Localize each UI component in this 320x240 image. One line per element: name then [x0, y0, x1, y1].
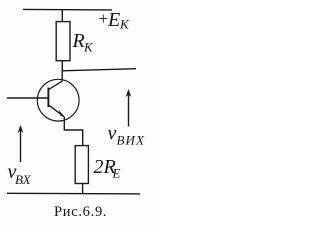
svg-text:ВИХ: ВИХ [117, 133, 146, 148]
svg-text:R: R [72, 30, 85, 52]
svg-text:E: E [112, 166, 121, 181]
svg-text:v: v [108, 123, 117, 145]
transistor VT1 [37, 79, 79, 121]
svg-text:Рис.6.9.: Рис.6.9. [54, 204, 107, 220]
wire top supply rail [23, 8, 112, 11]
svg-text:K: K [83, 40, 94, 55]
wire rail to RK top [61, 10, 63, 22]
label 2RE [94, 156, 121, 181]
wire 2RE bottom to ground rail [82, 184, 84, 194]
label v_vx input [8, 161, 32, 187]
svg-text:K: K [119, 17, 130, 32]
resistor RK [56, 22, 70, 61]
wire bottom ground rail [7, 192, 140, 195]
wire base lead [7, 97, 48, 99]
label +EK [99, 9, 131, 32]
wire emitter to 2RE [64, 117, 82, 146]
svg-text:ВХ: ВХ [15, 172, 32, 187]
resistor 2RE [75, 146, 88, 184]
svg-text:E: E [107, 9, 120, 31]
wire RK bottom to collector [61, 61, 63, 81]
label RK [72, 30, 95, 55]
label v_vyx output [108, 123, 146, 148]
wire collector output rail [62, 69, 136, 71]
arrow input voltage [18, 125, 24, 162]
svg-text:+: + [99, 9, 109, 28]
arrow output voltage [126, 89, 132, 127]
